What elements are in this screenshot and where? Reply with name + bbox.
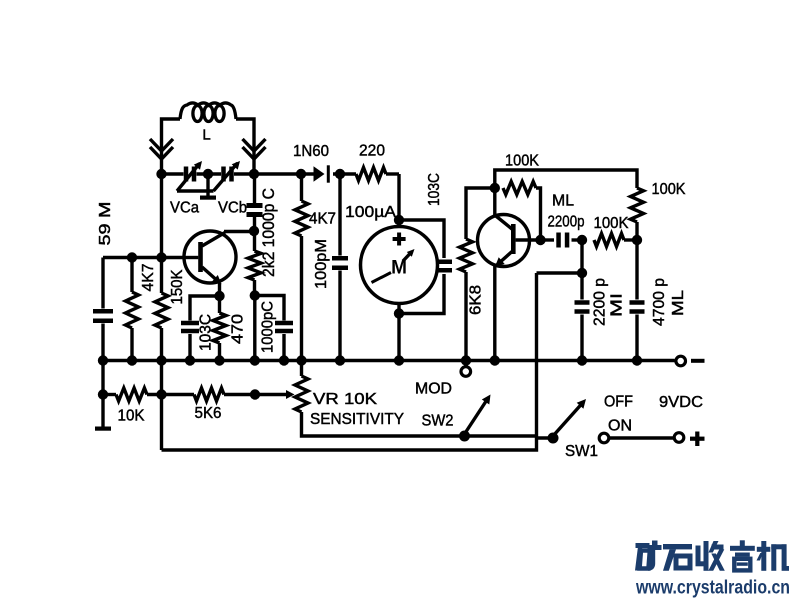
- wire bottom return rail: [162, 273, 537, 450]
- junction on bus x=284: [279, 355, 289, 365]
- capacitor 2200 p MI: [575, 273, 590, 361]
- label 4K7 (left): [140, 263, 157, 291]
- node tank right: [249, 169, 259, 179]
- svg-text:5K6: 5K6: [195, 405, 222, 422]
- capacitor 4700 p ML: [630, 240, 645, 361]
- resistor 10K: [116, 388, 147, 401]
- resistor 470: [213, 296, 226, 361]
- svg-text:ON: ON: [608, 418, 632, 435]
- node bias top left: [127, 252, 137, 262]
- transistor Q1: [183, 231, 236, 284]
- node Q1 collector junction: [249, 226, 259, 236]
- svg-text:ML: ML: [552, 193, 574, 210]
- ground (left bottom): [95, 395, 111, 431]
- junction on bus x=582: [577, 355, 587, 365]
- svg-text:6K8: 6K8: [468, 285, 485, 315]
- label 2k2 1000p C column: [259, 188, 278, 277]
- junction on bus x=161.5: [156, 355, 166, 365]
- terminal battery plus: [674, 433, 684, 443]
- wire right end of top rail down to meter: [397, 174, 400, 226]
- label 6K8: [468, 285, 485, 315]
- node cap out: [577, 235, 587, 245]
- resistor 5K6: [194, 388, 224, 401]
- label 9VDC: [659, 394, 703, 411]
- label 100pM: [313, 239, 330, 289]
- label 220: [359, 143, 385, 160]
- resistor 220 (horizontal): [356, 168, 386, 181]
- label SW2: [422, 413, 454, 430]
- label 103C (left): [198, 314, 215, 351]
- wire Q1 collector: [224, 230, 253, 233]
- svg-text:10K: 10K: [118, 408, 145, 425]
- svg-text:ML: ML: [670, 290, 687, 316]
- terminal MOD: [461, 361, 471, 377]
- junction on bus x=466: [461, 355, 471, 365]
- svg-text:470: 470: [230, 314, 247, 344]
- svg-text:4K7: 4K7: [309, 211, 336, 228]
- node after diode: [335, 169, 345, 179]
- label 150K: [169, 269, 186, 304]
- svg-text:100K: 100K: [652, 181, 686, 198]
- svg-text:2200 p: 2200 p: [592, 278, 609, 326]
- junction on bus x=340: [335, 355, 345, 365]
- junction on bus x=190: [185, 355, 195, 365]
- label 5K6: [195, 405, 222, 422]
- label VCb: [218, 200, 247, 217]
- junction on bus x=494.8: [490, 355, 500, 365]
- junction on bus x=637: [632, 355, 642, 365]
- terminal battery minus: [676, 356, 686, 366]
- meter M letter: [391, 258, 407, 279]
- node 2k2 bottom: [250, 290, 260, 300]
- wire Q2 emitter to bus: [493, 266, 496, 361]
- node wiper feed: [250, 389, 260, 399]
- switch SW2: [459, 395, 491, 442]
- svg-text:100µA: 100µA: [345, 204, 396, 221]
- wire meter bottom to bus: [397, 304, 400, 361]
- capacitor ML 2200p: [541, 233, 583, 248]
- wire SW1 to plus terminal: [610, 436, 674, 439]
- svg-text:4700 p: 4700 p: [651, 278, 668, 326]
- meter plus mark: [393, 233, 406, 246]
- junction on bus x=399: [394, 355, 404, 365]
- label MOD: [415, 381, 452, 398]
- resistor 6K8: [460, 188, 495, 361]
- resistor 100K (feedback): [503, 182, 541, 241]
- label SENSITIVITY: [310, 411, 404, 428]
- node lower rail mid: [156, 389, 166, 399]
- inductor L (tank coil): [180, 103, 236, 122]
- node return tap: [577, 268, 587, 278]
- junction on bus x=219.5: [214, 355, 224, 365]
- svg-text:1N60: 1N60: [293, 143, 329, 160]
- variable capacitor VCb: [214, 161, 241, 191]
- node lower rail left: [98, 389, 108, 399]
- capacitor C 1000p (top): [247, 174, 263, 231]
- wire divider rail y=394.5: [103, 393, 255, 396]
- label 470: [230, 314, 247, 344]
- label 10K: [118, 408, 145, 425]
- capacitor 103C (emitter): [181, 296, 220, 361]
- wire base rail: [103, 256, 198, 259]
- node base rail / 150K: [156, 252, 166, 262]
- wire ground rail (bottom bus) y=360.5: [102, 359, 675, 362]
- label 103C (meter): [426, 173, 443, 206]
- svg-text:www.crystalradio.cn: www.crystalradio.cn: [635, 577, 790, 599]
- svg-text:150K: 150K: [169, 269, 186, 304]
- capacitor 103C (meter bypass): [399, 220, 452, 314]
- wire return tap to bottom rail: [537, 271, 583, 274]
- svg-text:59 M: 59 M: [97, 202, 114, 246]
- wire left col bus to lower rail: [101, 361, 104, 395]
- label MI: [609, 293, 626, 317]
- svg-text:9VDC: 9VDC: [659, 394, 703, 411]
- svg-text:VCa: VCa: [170, 200, 199, 217]
- node Q2 base: [535, 235, 545, 245]
- logo url www.crystalradio.cn: [635, 577, 790, 599]
- resistor 150K: [155, 174, 168, 361]
- meter M1 100uA circle: [361, 227, 438, 304]
- resistor 100K (middle): [594, 234, 637, 247]
- label ON: [608, 418, 632, 435]
- junction on bus x=103: [98, 355, 108, 365]
- wire main top rail y=174: [162, 172, 400, 175]
- diode D1 1N60: [314, 165, 330, 182]
- svg-text:2200p: 2200p: [548, 214, 585, 231]
- junction on bus x=301.5: [296, 355, 306, 365]
- svg-text:SENSITIVITY: SENSITIVITY: [310, 411, 404, 428]
- label L: [202, 127, 210, 144]
- svg-text:4K7: 4K7: [140, 263, 157, 291]
- junction on bus x=132: [127, 355, 137, 365]
- wire 150K col down to bottom rail: [160, 361, 163, 451]
- wire 2k2 bottom to bus: [253, 296, 256, 361]
- svg-text:103C: 103C: [426, 173, 443, 206]
- resistor 2k2: [248, 231, 261, 296]
- wiper arrow into VR: [255, 390, 295, 399]
- label 4700 p: [651, 278, 668, 326]
- svg-text:220: 220: [359, 143, 385, 160]
- meter needle: [372, 273, 392, 283]
- wire left antenna branch: [162, 119, 181, 174]
- chevron arrow right (down, on right tank wire): [243, 139, 266, 159]
- label 1000pC: [260, 301, 277, 353]
- node meter bottom: [394, 308, 404, 318]
- label 4K7 (right): [309, 211, 336, 228]
- label 1N60: [293, 143, 329, 160]
- resistor 100K (right): [631, 188, 644, 240]
- resistor 4K7 (left): [126, 258, 139, 361]
- plus sign: [690, 432, 705, 447]
- node tank left: [156, 169, 166, 179]
- ground (tank rotor): [200, 174, 216, 200]
- label 100K (right): [652, 181, 686, 198]
- wire rotor link of VCa/VCb: [177, 189, 214, 192]
- svg-text:MOD: MOD: [415, 381, 452, 398]
- wire Q1 emitter down: [218, 283, 221, 296]
- variable capacitor VCa: [177, 161, 202, 191]
- svg-text:MI: MI: [609, 293, 626, 317]
- svg-text:100pM: 100pM: [313, 239, 330, 289]
- label VCa: [170, 200, 199, 217]
- label 100µA: [345, 204, 396, 221]
- label OFF: [604, 394, 633, 411]
- capacitor 100pM: [332, 174, 348, 361]
- meter arrow: [403, 249, 415, 261]
- transistor Q2: [478, 188, 542, 267]
- potentiometer VR 10K: [295, 361, 537, 437]
- logo 矿石收音机 (crystalradio): [635, 540, 789, 571]
- node right col: [632, 235, 642, 245]
- label 59 M: [97, 202, 114, 246]
- svg-text:VCb: VCb: [218, 200, 247, 217]
- label ML (cap): [670, 290, 687, 316]
- wire Q2 collector up / top feed rail: [495, 170, 637, 188]
- label 2200 p: [592, 278, 609, 326]
- node meter top: [394, 215, 404, 225]
- svg-text:SW1: SW1: [565, 443, 598, 460]
- svg-text:SW2: SW2: [422, 413, 454, 430]
- minus sign: [691, 359, 705, 363]
- junction on bus x=254.8: [250, 355, 260, 365]
- label VR 10K: [313, 391, 377, 408]
- label ML: [552, 193, 574, 210]
- node Q2 collector: [490, 183, 500, 193]
- svg-text:VR 10K: VR 10K: [313, 391, 377, 408]
- svg-text:100K: 100K: [505, 153, 539, 170]
- node tank center: [203, 169, 213, 179]
- node Q1 emitter: [214, 291, 224, 301]
- resistor R 4K7 at x=301: [295, 174, 308, 361]
- svg-text:L: L: [202, 127, 210, 144]
- wire right antenna branch: [236, 119, 254, 174]
- svg-text:1000pC: 1000pC: [260, 301, 277, 353]
- label 2200p: [548, 214, 585, 231]
- label SW1: [565, 443, 598, 460]
- svg-text:2k2 1000p C: 2k2 1000p C: [259, 188, 278, 277]
- wire 2200p node down: [580, 240, 583, 273]
- capacitor 1000pC (lower): [255, 296, 293, 361]
- label 100K (middle): [594, 215, 629, 232]
- svg-text:OFF: OFF: [604, 394, 633, 411]
- chevron arrow left (down, on left tank wire): [150, 139, 173, 159]
- label 100K (top): [505, 153, 539, 170]
- switch SW1: [537, 399, 609, 444]
- capacitor M 59 (left input): [93, 258, 113, 361]
- svg-text:100K: 100K: [594, 215, 629, 232]
- node diode anode: [296, 169, 306, 179]
